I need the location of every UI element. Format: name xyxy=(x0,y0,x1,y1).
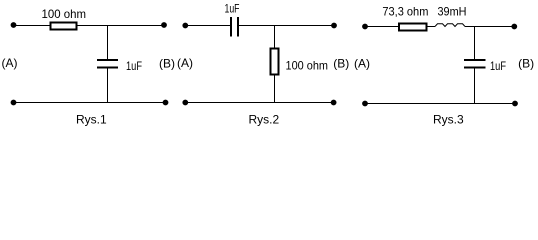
terminal dot, circuit 3 bottom left xyxy=(362,101,368,107)
svg-text:(A): (A) xyxy=(177,56,193,70)
wire, circuit 3 bottom rail xyxy=(365,103,515,105)
svg-text:39mH: 39mH xyxy=(438,5,467,19)
wire, circuit 2 resistor upper stem xyxy=(274,26,276,49)
resistor 100 ohm, circuit 2 shunt element xyxy=(271,49,279,75)
svg-text:(B): (B) xyxy=(159,56,175,70)
wire, circuit 3 capacitor upper stem xyxy=(474,27,476,60)
node A terminal dot, circuit 1 top left xyxy=(11,22,17,28)
wire, circuit 3 capacitor lower stem xyxy=(474,69,476,104)
svg-text:Rys.1: Rys.1 xyxy=(76,113,107,127)
wire, circuit 2 resistor lower stem xyxy=(274,76,276,103)
terminal dot, circuit 1 bottom left xyxy=(11,100,17,106)
node B terminal dot, circuit 2 top right xyxy=(331,23,337,29)
terminal dot, circuit 2 bottom right xyxy=(331,100,337,106)
svg-text:(B): (B) xyxy=(518,56,534,70)
svg-text:100 ohm: 100 ohm xyxy=(286,59,329,73)
capacitor 1uF, circuit 1 shunt element xyxy=(97,60,118,68)
svg-text:(B): (B) xyxy=(333,56,349,70)
terminal dot, circuit 1 bottom right xyxy=(163,100,169,106)
svg-text:73,3 ohm: 73,3 ohm xyxy=(382,5,428,19)
wire, circuit 2 bottom rail xyxy=(185,102,333,104)
capacitor 1uF, circuit 3 shunt element xyxy=(464,60,486,68)
inductor 39mH, circuit 3 series element xyxy=(435,24,465,27)
svg-text:Rys.3: Rys.3 xyxy=(433,113,464,127)
node B terminal dot, circuit 3 top right xyxy=(511,24,517,30)
resistor 73,3 ohm, circuit 3 series element xyxy=(399,24,427,31)
wire, circuit 2 top rail right segment xyxy=(239,25,334,27)
node A terminal dot, circuit 2 top left xyxy=(182,23,188,29)
terminal dot, circuit 2 bottom left xyxy=(182,100,188,106)
wire, circuit 1 top rail right segment xyxy=(78,25,165,27)
wire, circuit 1 top rail left segment xyxy=(14,25,51,27)
wire, circuit 1 bottom rail xyxy=(14,102,166,104)
svg-text:100 ohm: 100 ohm xyxy=(42,7,87,21)
svg-text:(A): (A) xyxy=(354,56,370,70)
wire, circuit 3 segment between resistor and inductor xyxy=(428,26,436,28)
node B terminal dot, circuit 1 top right xyxy=(161,22,167,28)
wire, circuit 1 capacitor upper stem xyxy=(107,26,109,60)
svg-text:1uF: 1uF xyxy=(126,59,142,73)
wire, circuit 1 capacitor lower stem xyxy=(107,69,109,103)
svg-text:1uF: 1uF xyxy=(225,2,240,16)
terminal dot, circuit 3 bottom right xyxy=(512,101,518,107)
svg-text:Rys.2: Rys.2 xyxy=(249,113,280,127)
svg-text:(A): (A) xyxy=(2,56,18,70)
wire, circuit 2 top rail left segment xyxy=(185,25,230,27)
wire, circuit 3 top rail right segment xyxy=(465,26,514,28)
wire, circuit 3 top rail left segment xyxy=(365,26,398,28)
capacitor 1uF, circuit 2 series element xyxy=(231,17,238,37)
svg-text:1uF: 1uF xyxy=(490,59,506,73)
node A terminal dot, circuit 3 top left xyxy=(362,24,368,30)
resistor 100 ohm, circuit 1 series element xyxy=(51,23,77,30)
